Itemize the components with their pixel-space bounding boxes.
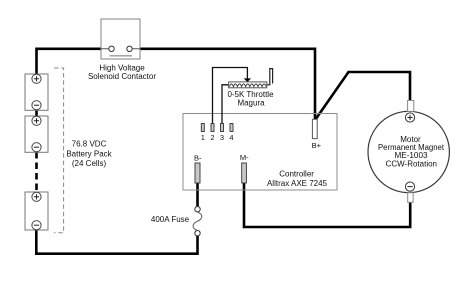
svg-text:1: 1 — [201, 133, 205, 142]
svg-text:Alltrax AXE 7245: Alltrax AXE 7245 — [267, 179, 328, 188]
svg-text:Battery Pack: Battery Pack — [66, 149, 112, 158]
svg-text:Solenoid Contactor: Solenoid Contactor — [88, 72, 156, 81]
svg-text:76.8 VDC: 76.8 VDC — [72, 140, 107, 149]
svg-text:B-: B- — [194, 154, 202, 163]
svg-text:400A Fuse: 400A Fuse — [151, 215, 190, 224]
svg-text:3: 3 — [220, 133, 224, 142]
svg-text:2: 2 — [210, 133, 214, 142]
svg-text:M-: M- — [240, 153, 249, 162]
svg-text:Magura: Magura — [237, 98, 265, 107]
svg-text:B+: B+ — [312, 141, 322, 150]
svg-text:Controller: Controller — [279, 170, 314, 179]
svg-text:4: 4 — [229, 133, 233, 142]
svg-text:(24 Cells): (24 Cells) — [72, 159, 107, 168]
svg-text:CCW-Rotation: CCW-Rotation — [386, 159, 437, 168]
